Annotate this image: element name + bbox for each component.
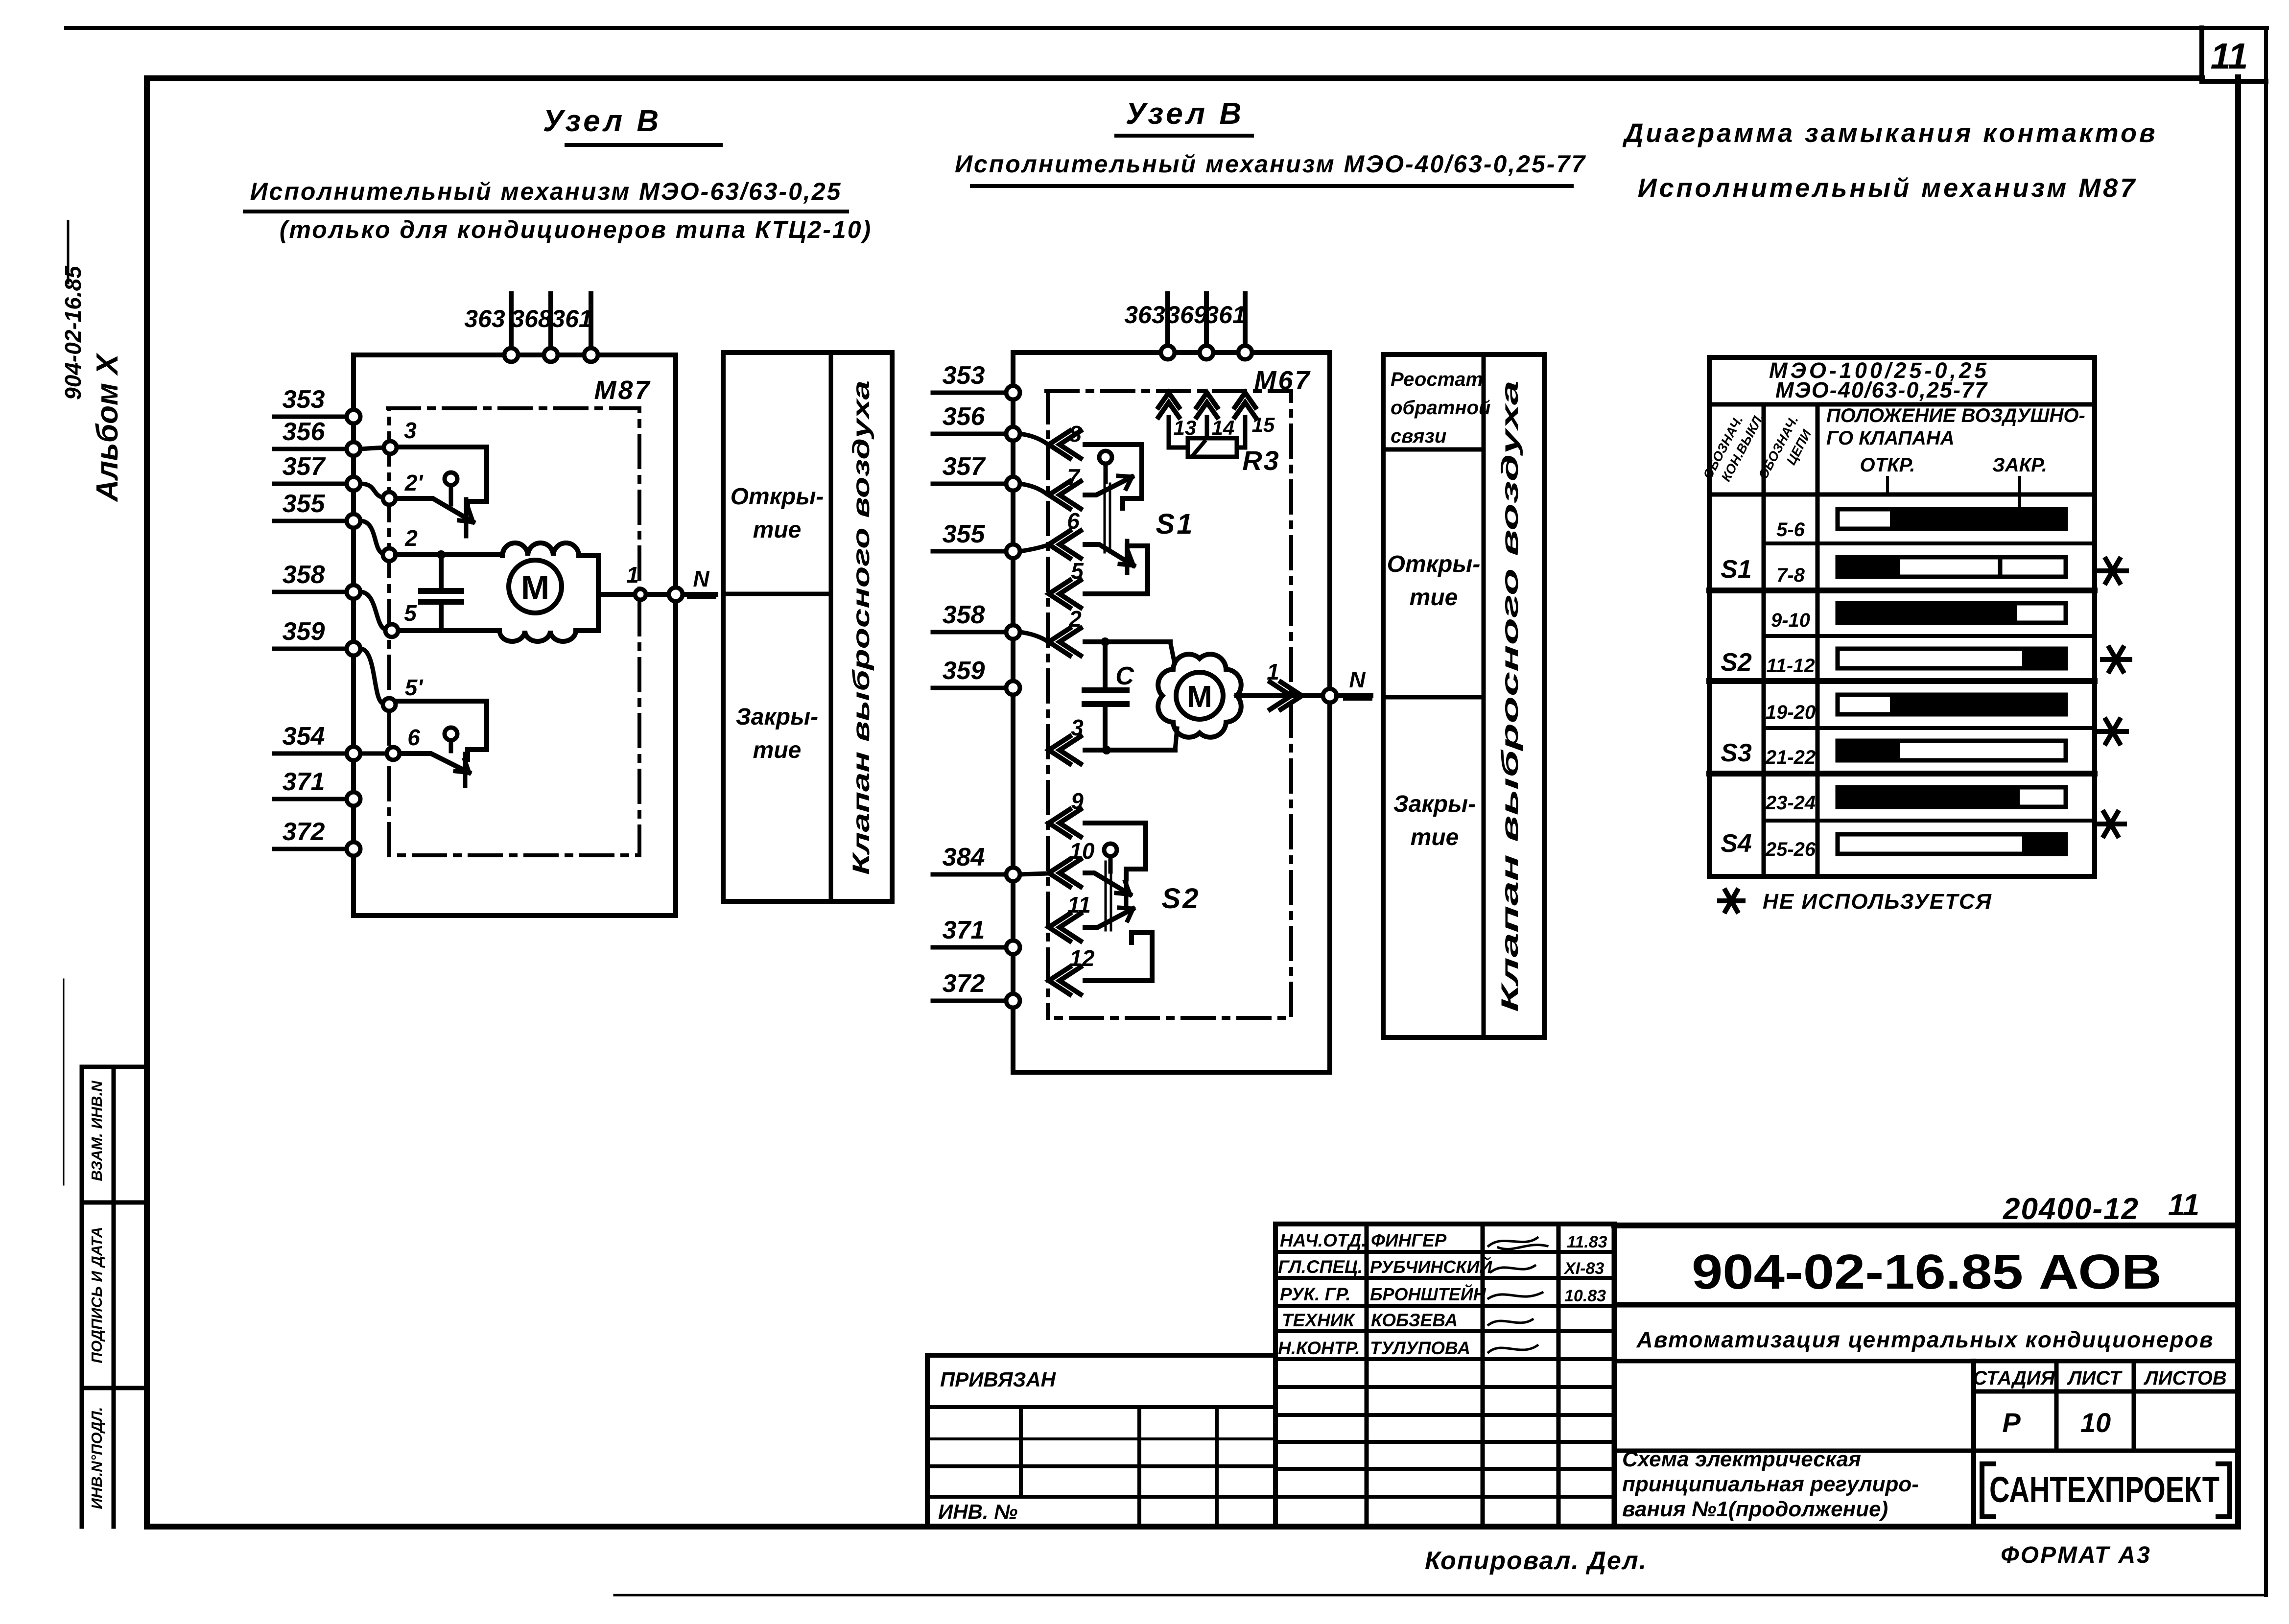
box2 outline xyxy=(1383,354,1544,1037)
feedback pins 15 chevrons up xyxy=(1235,393,1255,417)
wire 369 drop (ckt2) xyxy=(1204,294,1209,352)
svg-text:ГО КЛАПАНА: ГО КЛАПАНА xyxy=(1826,427,1955,449)
svg-text:ЛИСТ: ЛИСТ xyxy=(2067,1367,2123,1389)
terminal 358 ckt2 xyxy=(1006,625,1020,639)
stage header row bottom xyxy=(1974,1389,2238,1394)
switch S1 fixed bracket lower xyxy=(1085,546,1148,594)
svg-text:1: 1 xyxy=(626,562,639,588)
asterisk S3 xyxy=(2099,720,2126,743)
connector contact 3 chevrons xyxy=(1049,736,1081,764)
svg-text:S1: S1 xyxy=(1721,555,1752,584)
connector contact 6 chevrons xyxy=(1049,531,1081,558)
terminal 372 xyxy=(347,842,360,856)
motor M ckt2: rotor circle xyxy=(1176,672,1223,719)
sig row line 4 xyxy=(1275,1329,1614,1333)
resistor R3 wiper mark xyxy=(1194,442,1204,454)
svg-text:Исполнительный механизм МЭО-4: Исполнительный механизм МЭО-40/63-0,25-7… xyxy=(955,150,1586,178)
privyazan grid h2 xyxy=(927,1437,1275,1440)
svg-text:Исполнительный механизм МЭО-: Исполнительный механизм МЭО-63/63-0,25 xyxy=(250,178,842,205)
svg-text:13: 13 xyxy=(1174,416,1197,439)
svg-text:363: 363 xyxy=(1124,301,1165,329)
wire N ckt2 xyxy=(1337,693,1371,698)
svg-text:11.83: 11.83 xyxy=(1567,1233,1607,1251)
svg-text:БРОНШТЕЙН: БРОНШТЕЙН xyxy=(1370,1284,1487,1304)
svg-text:353: 353 xyxy=(283,385,325,414)
svg-text:1: 1 xyxy=(1267,659,1279,684)
terminal 359 xyxy=(347,642,360,656)
svg-text:ОТКР.: ОТКР. xyxy=(1860,454,1915,476)
bar 7-8 fill xyxy=(1836,555,1900,579)
capacitor C ckt2: bottom stem xyxy=(1103,707,1108,750)
terminal 384 ckt2 xyxy=(1006,868,1020,881)
svg-text:10: 10 xyxy=(1069,838,1095,864)
junction N ckt1 xyxy=(669,588,683,601)
svg-text:7: 7 xyxy=(1067,464,1081,490)
asterisk S4 xyxy=(2097,812,2124,836)
box1 outline xyxy=(723,353,892,901)
connector contact 10 chevrons xyxy=(1049,859,1081,887)
svg-text:Реостат: Реостат xyxy=(1391,369,1483,390)
page bottom border xyxy=(614,1594,2266,1597)
svg-text:5: 5 xyxy=(404,600,417,626)
terminal 371 leader ckt2 xyxy=(933,945,1006,950)
wire 363 drop (ckt2) xyxy=(1165,294,1170,352)
svg-text:S2: S2 xyxy=(1721,648,1752,677)
svg-text:Откры-: Откры- xyxy=(1387,551,1481,577)
svg-text:СТАДИЯ: СТАДИЯ xyxy=(1973,1367,2055,1389)
sheet number box xyxy=(2202,28,2266,81)
box2 open/close divider xyxy=(1383,695,1484,700)
switch S1 blade 6 xyxy=(1085,544,1133,565)
connector contact 12 chevrons xyxy=(1049,967,1081,994)
svg-text:МЭО-40/63-0,25-77: МЭО-40/63-0,25-77 xyxy=(1775,377,1988,402)
title underline xyxy=(566,143,721,147)
feedback pins 13 chevrons up xyxy=(1158,393,1179,417)
terminal 355 leader xyxy=(274,519,347,523)
svg-text:2: 2 xyxy=(1068,606,1082,632)
terminal 357 leader ckt2 xyxy=(933,482,1006,486)
limit switch S lower: actuator stem xyxy=(449,740,453,751)
limit switch S upper: actuator stem xyxy=(449,485,453,504)
terminal 372 ckt2 xyxy=(1006,994,1020,1008)
junction circle node 1 ckt1 xyxy=(635,589,646,600)
wire motor to node 1 and N xyxy=(598,592,716,597)
project name row bottom xyxy=(1614,1359,2238,1364)
sig col divider 3 xyxy=(1557,1224,1561,1527)
svg-text:353: 353 xyxy=(943,361,985,390)
svg-text:Н.КОНТР.: Н.КОНТР. xyxy=(1278,1338,1360,1358)
svg-text:11: 11 xyxy=(1067,892,1091,918)
switch S2 fixed bracket lower xyxy=(1085,933,1152,981)
switch S1 actuator button xyxy=(1099,451,1112,464)
wire 355 to contact 2 xyxy=(360,521,382,553)
left terminal bus ckt2 xyxy=(1011,393,1015,1001)
privyazan grid v1 xyxy=(1019,1407,1023,1497)
terminal 353 ckt2 xyxy=(1006,386,1020,400)
stub 355 to 6 xyxy=(1020,545,1047,551)
asterisk row 7-8 xyxy=(2099,559,2126,583)
wire 354 to contact 6 xyxy=(360,752,386,756)
privyazan grid h4 xyxy=(927,1495,1275,1499)
svg-text:Автоматизация центральных ко: Автоматизация центральных кондиционеров xyxy=(1636,1327,2214,1352)
wire 363 drop (ckt1) xyxy=(509,294,514,354)
table group separator S1/S2 xyxy=(1709,588,2095,593)
svg-text:принципиальная регулиро-: принципиальная регулиро- xyxy=(1622,1472,1919,1496)
terminal 356 leader ckt2 xyxy=(933,432,1006,436)
junction 363 on rail xyxy=(504,348,518,362)
svg-text:N: N xyxy=(693,566,709,591)
capacitor C ckt1: top stem xyxy=(439,555,444,588)
stage column left edge xyxy=(1971,1361,1976,1527)
svg-text:2': 2' xyxy=(404,470,424,495)
svg-text:14: 14 xyxy=(1212,416,1235,439)
terminal 357 xyxy=(347,477,360,491)
capacitor C ckt1: bottom stem xyxy=(439,604,444,631)
capacitor C ckt2: plates xyxy=(1085,690,1127,704)
svg-text:Исполнительный механизм М87: Исполнительный механизм М87 xyxy=(1638,173,2137,203)
bar 9-10 fill xyxy=(1836,601,2017,625)
bar 7-8 end segment divider xyxy=(1998,557,2003,577)
bar 5-6 fill xyxy=(1890,507,2066,531)
table row separator 23-24/25-26 xyxy=(1764,819,2095,823)
limit switch S lower: actuator button xyxy=(445,728,457,740)
sig row line 10 xyxy=(1275,1495,1614,1499)
left margin stray line xyxy=(63,979,65,1185)
svg-text:6: 6 xyxy=(407,725,420,750)
wire 361 drop (ckt2) xyxy=(1243,294,1248,352)
contact 3 xyxy=(384,441,397,454)
svg-text:НАЧ.ОТД.: НАЧ.ОТД. xyxy=(1280,1230,1366,1250)
svg-text:Откры-: Откры- xyxy=(731,484,824,510)
stub 357 to 7 xyxy=(1020,484,1047,494)
junction 368 on rail xyxy=(544,348,558,362)
table column line 1 xyxy=(1762,404,1766,876)
footnote asterisk xyxy=(1720,891,1743,911)
terminal 359 leader xyxy=(274,647,347,651)
junction dot wire2/cap ckt2 xyxy=(1101,637,1109,646)
wire pin14 to R3 wiper xyxy=(1205,417,1209,438)
svg-text:НЕ ИСПОЛЬЗУЕТСЯ: НЕ ИСПОЛЬЗУЕТСЯ xyxy=(1763,890,1992,914)
connector contact 8 chevrons xyxy=(1049,431,1081,458)
svg-text:Узел В: Узел В xyxy=(1126,97,1244,131)
title underline 4 xyxy=(972,184,1572,188)
M87 boundary dash-dot box ckt1 xyxy=(388,408,639,855)
switch S2 blade 11 arrowhead xyxy=(1119,908,1133,920)
switch S1 linkage bar xyxy=(1105,484,1110,552)
stub 384 to 10 xyxy=(1020,873,1047,874)
svg-text:12: 12 xyxy=(1069,945,1095,971)
privyazan grid v2 xyxy=(1137,1407,1141,1527)
feedback pins 14 chevrons up xyxy=(1197,393,1217,417)
page right border xyxy=(2264,28,2268,1595)
title underline 2 xyxy=(245,210,847,213)
svg-text:Закры-: Закры- xyxy=(1393,791,1476,817)
capacitor C ckt2: top stem xyxy=(1103,642,1108,687)
svg-text:359: 359 xyxy=(943,657,985,685)
svg-text:371: 371 xyxy=(943,916,985,944)
bar 21-22 fill xyxy=(1836,739,1900,762)
terminal 371 xyxy=(347,792,360,806)
connector 1 chevrons right xyxy=(1270,682,1302,709)
table group separator S3/S4 xyxy=(1709,771,2095,777)
svg-text:S1: S1 xyxy=(1156,508,1195,540)
switch S2 fixed bracket upper xyxy=(1085,823,1146,879)
table group separator S2/S3 xyxy=(1709,678,2095,684)
stub 356 to 8 xyxy=(1020,434,1047,444)
switch S1 blade 7 arrowhead xyxy=(1118,476,1132,489)
svg-text:Узел В: Узел В xyxy=(543,104,661,138)
wire 356 to contact 3 xyxy=(360,447,383,449)
svg-text:N: N xyxy=(1349,667,1366,692)
outer box ckt1 xyxy=(354,355,676,916)
SANTEHPROEKT logo bracket right xyxy=(2218,1464,2230,1517)
svg-text:тие: тие xyxy=(753,517,802,543)
connector contact 9 chevrons xyxy=(1049,809,1081,837)
connector contact 2 chevrons xyxy=(1049,628,1081,656)
svg-text:ИНВ. №: ИНВ. № xyxy=(938,1500,1017,1523)
limit switch S upper: blade xyxy=(396,498,473,522)
wire pin13 to R3 xyxy=(1169,417,1188,447)
ZAKR tick xyxy=(2018,477,2021,508)
wire contact 3 to motor ckt2 xyxy=(1085,748,1175,753)
svg-text:S3: S3 xyxy=(1721,739,1752,767)
limit switch S lower: fixed bracket xyxy=(397,701,487,760)
svg-text:ФОРМАТ А3: ФОРМАТ А3 xyxy=(2001,1542,2151,1568)
terminal 372 leader ckt2 xyxy=(933,999,1006,1003)
margin designation underline xyxy=(67,221,70,283)
table row separator 5-6/7-8 xyxy=(1764,541,2095,545)
svg-text:6: 6 xyxy=(1067,508,1080,534)
switch S2 fixed pin tick xyxy=(1124,875,1129,906)
terminal 356 ckt2 xyxy=(1006,427,1020,441)
wire motor to connector 1 ckt2 xyxy=(1237,693,1330,698)
terminal 358 leader ckt2 xyxy=(933,630,1006,635)
svg-text:23-24: 23-24 xyxy=(1765,792,1816,814)
title underline 3 xyxy=(1116,134,1252,138)
box2 column divider xyxy=(1482,354,1486,1037)
terminal 356 xyxy=(347,442,360,456)
sig row line 5 xyxy=(1275,1357,1614,1361)
switch S2 blade 11 xyxy=(1085,909,1133,927)
sig col divider 2 xyxy=(1481,1224,1485,1527)
svg-text:371: 371 xyxy=(283,768,325,796)
connector contact 5 chevrons xyxy=(1049,580,1081,608)
wire contact 2 to motor xyxy=(396,552,502,557)
table header divider xyxy=(1709,402,2095,407)
limit switch S upper: fixed bracket xyxy=(397,447,487,512)
box2 rheostat divider xyxy=(1383,447,1484,452)
limit switch S lower: blade xyxy=(400,753,469,773)
switch S1 fixed bracket upper xyxy=(1085,445,1142,508)
svg-text:связи: связи xyxy=(1391,425,1446,447)
contact 5' xyxy=(383,698,396,711)
wire pin15 to R3 xyxy=(1237,417,1245,447)
contact 2 xyxy=(383,548,396,561)
svg-text:904-02-16.85: 904-02-16.85 xyxy=(60,265,86,400)
contact 2' xyxy=(383,492,396,505)
bar 7-8 outline xyxy=(1838,557,2066,577)
svg-text:2: 2 xyxy=(404,525,418,551)
svg-text:ВЗАМ. ИНВ.N: ВЗАМ. ИНВ.N xyxy=(88,1081,105,1181)
motor M ckt1: stator winding upper xyxy=(502,543,598,594)
bar 19-20 outline xyxy=(1838,695,2066,714)
svg-text:XI-83: XI-83 xyxy=(1563,1259,1604,1278)
svg-text:11: 11 xyxy=(2168,1188,2199,1222)
bar 23-24 outline xyxy=(1838,787,2066,807)
svg-text:11: 11 xyxy=(2211,36,2248,76)
switch S1 fixed pin tick xyxy=(1125,541,1130,573)
svg-text:(только для кондиционеров типа: (только для кондиционеров типа КТЦ2-10) xyxy=(280,216,872,243)
svg-text:361: 361 xyxy=(551,305,592,332)
svg-text:363: 363 xyxy=(464,305,505,332)
box1 open/close divider xyxy=(723,592,831,596)
resistor R3 body xyxy=(1188,438,1237,457)
svg-text:10: 10 xyxy=(2080,1407,2111,1438)
bar 9-10 outline xyxy=(1838,603,2066,623)
signature table left edge xyxy=(1273,1224,1278,1527)
connector contact 7 chevrons xyxy=(1049,481,1081,509)
contact 5 xyxy=(385,624,398,637)
junction 361 on rail xyxy=(584,348,598,362)
terminal 371 leader xyxy=(274,797,347,801)
svg-text:19-20: 19-20 xyxy=(1766,702,1816,723)
asterisk row 11-12 xyxy=(2102,648,2130,671)
limit switch S upper: fixed pin tick xyxy=(464,499,469,536)
junction 363 on rail ckt2 xyxy=(1161,346,1175,359)
svg-text:369: 369 xyxy=(1166,301,1207,329)
svg-text:S2: S2 xyxy=(1162,883,1201,915)
left attachment boxes grid xyxy=(82,1067,147,1527)
svg-text:359: 359 xyxy=(283,617,325,646)
svg-text:15: 15 xyxy=(1252,413,1275,436)
svg-text:ТУЛУПОВА: ТУЛУПОВА xyxy=(1370,1338,1470,1358)
box1 column divider xyxy=(829,353,833,901)
terminal 353 leader ckt2 xyxy=(933,391,1006,395)
svg-text:372: 372 xyxy=(283,818,325,846)
wire contact 2 to motor ckt2 xyxy=(1085,639,1170,644)
svg-text:356: 356 xyxy=(943,402,986,431)
wire contact 5 to motor xyxy=(398,628,499,633)
bar 19-20 fill xyxy=(1890,693,2066,716)
motor ckt2 entry links xyxy=(1170,642,1177,750)
svg-text:ГЛ.СПЕЦ.: ГЛ.СПЕЦ. xyxy=(1278,1257,1363,1277)
svg-text:КОБЗЕВА: КОБЗЕВА xyxy=(1371,1310,1458,1330)
terminal 357 leader xyxy=(274,482,347,486)
svg-text:ФИНГЕР: ФИНГЕР xyxy=(1371,1230,1447,1250)
wire 359 to contact 5' xyxy=(360,649,382,703)
svg-text:РУК. ГР.: РУК. ГР. xyxy=(1280,1284,1351,1304)
OTKR tick xyxy=(1886,477,1889,494)
table row separator 9-10/11-12 xyxy=(1764,634,2095,638)
table column header bottom xyxy=(1709,493,2095,497)
net label N underline ckt2 xyxy=(1345,698,1371,701)
svg-text:R3: R3 xyxy=(1242,445,1280,476)
privyazan grid h1 xyxy=(927,1405,1275,1409)
bar 11-12 fill xyxy=(2022,647,2066,670)
junction dot wire2/capacitor xyxy=(437,550,446,559)
svg-text:ЛИСТОВ: ЛИСТОВ xyxy=(2143,1367,2227,1389)
motor M ckt1: winding side links xyxy=(499,594,598,641)
svg-text:21-22: 21-22 xyxy=(1765,747,1816,768)
designation cell bottom xyxy=(1614,1302,2238,1308)
svg-text:7-8: 7-8 xyxy=(1776,565,1805,586)
terminal 354 leader xyxy=(274,752,347,756)
svg-text:3: 3 xyxy=(1071,715,1084,740)
svg-text:5-6: 5-6 xyxy=(1776,519,1805,541)
switch S2 actuator button xyxy=(1104,844,1117,856)
terminal 353 xyxy=(347,410,360,424)
svg-text:тие: тие xyxy=(1410,585,1458,611)
terminal 358 leader xyxy=(274,590,347,594)
svg-text:355: 355 xyxy=(283,490,326,518)
svg-text:САНТЕХПРОЕКТ: САНТЕХПРОЕКТ xyxy=(1989,1469,2219,1510)
bar 11-12 outline xyxy=(1838,649,2066,668)
junction dot wire3/cap ckt2 xyxy=(1102,746,1111,754)
M87 boundary dash-dot ckt2 xyxy=(1046,391,1291,1018)
svg-text:357: 357 xyxy=(943,452,986,481)
terminal 353 leader xyxy=(274,415,347,419)
svg-text:C: C xyxy=(1115,662,1134,690)
switch S2 actuator stem xyxy=(1109,856,1113,871)
switch S2 linkage bar xyxy=(1106,862,1111,930)
svg-text:11-12: 11-12 xyxy=(1766,655,1815,677)
svg-text:384: 384 xyxy=(943,843,985,871)
svg-text:357: 357 xyxy=(283,452,326,481)
table row separator 19-20/21-22 xyxy=(1764,726,2095,730)
title block left edge xyxy=(1612,1225,1617,1527)
wire 358 to contact 5 xyxy=(360,592,385,629)
wire 368 drop (ckt1) xyxy=(548,294,553,354)
sig row line 2 xyxy=(1275,1276,1614,1280)
limit switch S lower: fixed pin tick xyxy=(463,754,468,786)
signature table top edge xyxy=(1275,1222,1614,1226)
sig row line 8 xyxy=(1275,1440,1614,1444)
switch S1 blade 6 arrowhead xyxy=(1120,553,1133,565)
privyazan grid h3 xyxy=(927,1464,1275,1468)
sig row line 7 xyxy=(1275,1413,1614,1417)
sig row line 1 xyxy=(1275,1250,1614,1254)
sig row line 6 xyxy=(1275,1385,1614,1389)
terminal 359 ckt2 xyxy=(1006,681,1020,695)
SANTEHPROEKT logo bracket left xyxy=(1982,1464,1994,1517)
svg-text:ЗАКР.: ЗАКР. xyxy=(1992,454,2047,476)
motor M ckt1: rotor circle xyxy=(509,560,562,613)
terminal 358 xyxy=(347,585,360,599)
svg-text:20400-12: 20400-12 xyxy=(2003,1192,2139,1226)
list/listov divider xyxy=(2132,1361,2136,1451)
title block top edge xyxy=(1614,1223,2238,1228)
junction N ckt2 xyxy=(1323,689,1337,703)
svg-text:вания №1(продолжение): вания №1(продолжение) xyxy=(1622,1497,1888,1521)
terminal 355 leader ckt2 xyxy=(933,549,1006,554)
svg-text:3: 3 xyxy=(404,418,417,443)
svg-text:S4: S4 xyxy=(1721,829,1752,858)
terminal 371 ckt2 xyxy=(1006,941,1020,954)
svg-text:Копировал. Дел.: Копировал. Дел. xyxy=(1425,1547,1647,1575)
terminal 354 xyxy=(347,747,360,760)
motor M ckt2: winding cloud xyxy=(1158,654,1241,737)
terminal 372 leader xyxy=(274,847,347,851)
svg-text:904-02-16.85 АОВ: 904-02-16.85 АОВ xyxy=(1692,1245,2162,1299)
stage/list divider xyxy=(2054,1361,2059,1451)
page top border xyxy=(66,26,2267,30)
capacitor C ckt1: plates xyxy=(421,591,461,602)
svg-text:358: 358 xyxy=(283,561,325,589)
outer box ckt2 xyxy=(1013,353,1330,1072)
terminal 357 ckt2 xyxy=(1006,477,1020,491)
sig row line 9 xyxy=(1275,1467,1614,1471)
svg-text:372: 372 xyxy=(943,969,985,998)
